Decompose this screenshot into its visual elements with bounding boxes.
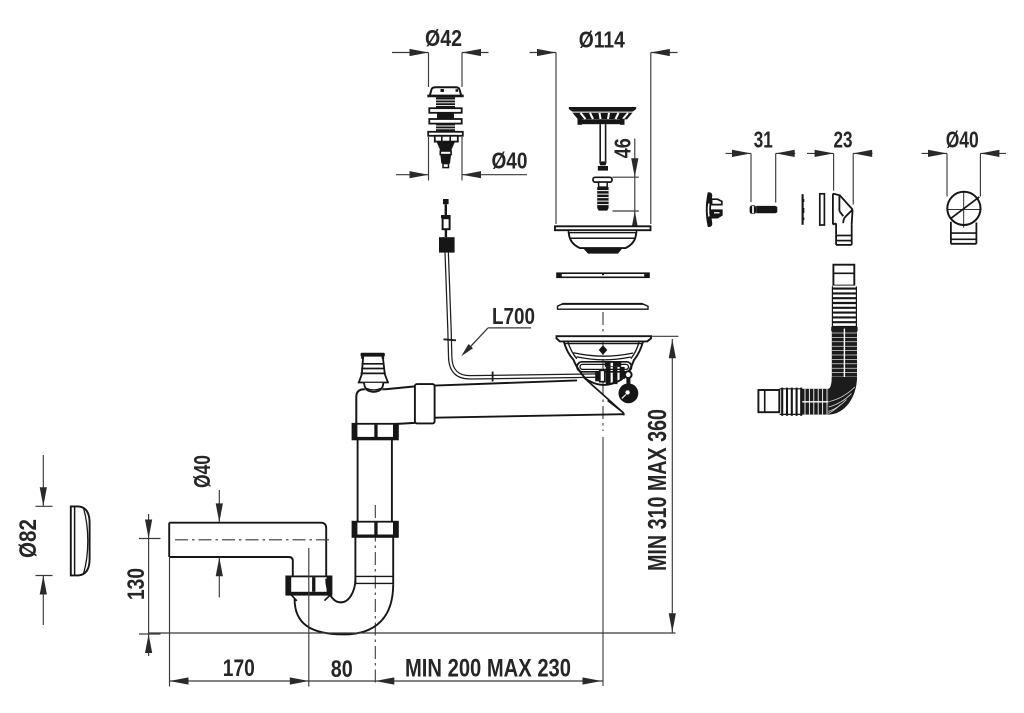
bottom dimension line [170,680,604,682]
drain position marker [599,345,608,354]
trap U-bend outer [295,584,394,634]
dimension 130 [139,514,161,656]
dimension Ø82 [36,455,53,625]
svg-text:Ø114: Ø114 [579,27,625,53]
svg-text:Ø40: Ø40 [189,455,215,488]
flexible hose upper corrugation [832,286,856,329]
svg-text:46: 46 [610,138,636,158]
svg-text:23: 23 [834,127,853,153]
drain outlet diagonal [587,380,624,415]
outlet pipe centerline [175,539,329,541]
trap nut bevel [291,595,330,601]
arrowheads 23 [815,150,873,157]
cover plug side view [706,192,722,227]
fixing screw 31mm [750,205,778,214]
strainer screw thread [597,187,608,211]
svg-text:Ø40: Ø40 [492,148,528,174]
svg-text:Ø42: Ø42 [425,25,462,51]
arrowheads Ø40 (elbow) [928,150,999,157]
strainer basket dome grid [572,113,632,120]
cable break tick 2 [492,372,494,382]
horizontal pipe to drain [435,380,624,417]
elbow front view stub [951,222,977,244]
floor baseline [148,632,676,634]
arrowheads 46 [631,158,638,230]
dimension line MIN 310 MAX 360 [671,339,673,633]
pipe union nut [415,384,435,423]
trap right leg [355,537,393,584]
arrowheads bottom dimensions [170,677,602,684]
strainer basket rim [569,107,636,112]
strainer screw shank [599,182,608,187]
strainer stem [600,124,605,161]
arrowheads 130 [145,520,152,654]
strainer basket bottom ring [578,119,625,125]
bowden cable L700 [447,253,597,378]
basket bowl wall band [569,230,637,232]
arrowheads Ø40 (knob thread) [410,171,482,178]
arrowheads Ø42 [410,49,482,56]
arrowheads 31 [732,150,795,157]
arrowheads MIN 310 MAX 360 [669,339,676,632]
drain flange underside line [565,343,642,345]
drain mechanism block [605,362,625,384]
pop-up knob U-part (Ø42 control) [427,87,463,167]
arrowheads Ø40 outlet pipe [216,503,223,576]
dimension label Ø42 [425,25,462,51]
outlet pipe left [169,523,326,579]
drain bowl [564,342,643,385]
elbow outlet 23mm side view [833,194,853,245]
basket bowl flange (exploded) [555,226,651,230]
drain flange [557,336,652,341]
trap left nut [286,576,331,594]
basket bowl body [569,233,636,254]
svg-text:MIN 310 MAX 360: MIN 310 MAX 360 [642,409,672,571]
dimension line Ø40 (knob thread) [396,137,527,181]
flexible hose bend [828,377,857,415]
flexible hose end corrugation [779,388,801,416]
flat gasket side view [820,194,825,225]
dimension line 23 [807,153,873,204]
svg-text:80: 80 [331,656,353,683]
flexible hose end fitting [758,390,779,412]
flexible hose dark horizontal section [801,389,828,415]
dimension MIN 310 MAX 360 extension tick [652,335,679,337]
cable clevis at drain [595,370,605,381]
vertical pipe [358,439,392,521]
sink gasket [558,303,649,309]
trap U-bend inner [326,579,355,603]
washer side view thin [803,194,804,225]
dimension line 31 [726,153,796,202]
end cap Ø82 side view [71,506,90,575]
dimension line Ø40 (elbow) [922,153,1007,196]
trap leg centerline [374,505,376,686]
svg-text:170: 170 [223,655,255,682]
flexible hose top fitting [833,265,854,286]
svg-text:130: 130 [123,568,150,600]
arrowheads Ø114 [537,49,670,56]
arrowheads Ø82 [40,487,47,594]
leader line L700 [464,328,531,354]
cable connector [441,215,451,237]
strainer gasket [557,273,649,278]
flexible hose dark vertical section [831,327,857,381]
svg-text:MIN 200 MAX 230: MIN 200 MAX 230 [405,655,571,683]
drain lever stirrup [577,362,632,372]
drain centerline [602,312,604,431]
drain pivot [625,371,632,378]
dimension 46 line [613,139,639,228]
svg-text:Ø40: Ø40 [946,127,979,153]
strainer stem nut [598,161,608,170]
cable adjuster block [439,237,455,252]
elbow union nut [353,424,398,440]
dimension line Ø42 [392,53,489,88]
svg-text:Ø82: Ø82 [15,519,42,558]
svg-text:L700: L700 [492,303,535,329]
siphon elbow body [356,386,415,424]
dimension Ø40 outlet pipe [218,490,220,598]
drain cam disc [619,383,639,403]
strainer screw washer [593,177,612,182]
drain cam link [626,378,630,384]
dimension line Ø114 [530,53,678,225]
elbow front view circle [947,191,982,228]
bottom extension lines [170,548,309,687]
dishwasher inlet connector [358,353,389,393]
cable break tick 1 [444,339,457,340]
trap upper nut [353,522,398,537]
leader arrowhead L700 [461,344,473,356]
cable pin head [443,199,449,215]
svg-text:31: 31 [754,127,773,153]
